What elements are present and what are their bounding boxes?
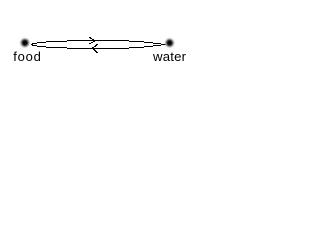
- node water (point): [166, 39, 173, 46]
- svg-text:water: water: [152, 49, 187, 64]
- wire: left junction tip: [31, 44, 33, 45]
- arrowhead on top arc (points right): [89, 37, 95, 44]
- wire: right junction stub: [161, 44, 166, 45]
- wire: edge food->water (top arc): [32, 40, 161, 44]
- node food (point): [21, 39, 28, 46]
- wire: edge water->food (bottom arc): [32, 45, 161, 49]
- svg-text:food: food: [13, 49, 41, 64]
- arrowhead on bottom arc (points left): [91, 44, 98, 53]
